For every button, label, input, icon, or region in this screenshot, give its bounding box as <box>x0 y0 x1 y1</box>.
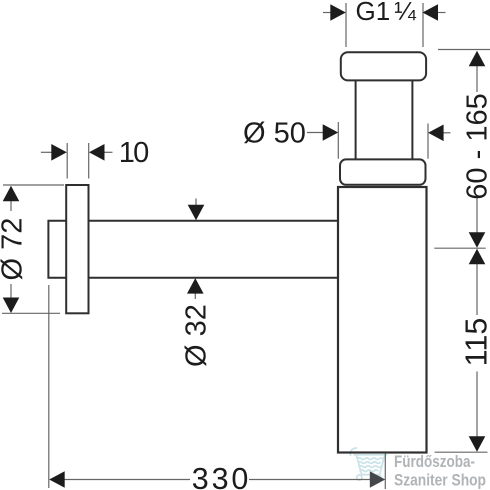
top flange <box>341 52 426 80</box>
dim G right arrow <box>423 4 439 21</box>
dim 32 down arrow <box>188 205 205 221</box>
dim 72 down arrow <box>3 298 20 314</box>
svg-text:Ø 32: Ø 32 <box>180 304 212 367</box>
svg-text:Ø 50: Ø 50 <box>243 118 306 150</box>
svg-text:Ø 72: Ø 72 <box>0 218 28 281</box>
dim 50 extension lines <box>337 122 339 159</box>
dim 330 left extension line <box>48 285 50 488</box>
pipe bottom edge <box>89 277 339 279</box>
svg-text:60 - 165: 60 - 165 <box>462 93 490 199</box>
svg-text:10: 10 <box>119 137 148 169</box>
dim 32 line tails <box>195 199 197 208</box>
top right extension line <box>438 49 490 51</box>
dim 10 right arrow <box>89 144 105 161</box>
dim G left arrow <box>330 4 346 21</box>
svg-text:Szaniter Shop: Szaniter Shop <box>394 471 486 490</box>
dim 72 line tails <box>10 201 12 212</box>
dim G extension lines <box>345 3 347 47</box>
pipe top edge <box>89 220 339 222</box>
dim 60-165 line segments <box>476 66 478 92</box>
body <box>338 187 427 453</box>
dim 60-165 up arrow <box>469 51 486 67</box>
dim 115 line segments <box>476 264 478 316</box>
dim 10 left arrow <box>51 144 67 161</box>
dim G leader tails <box>323 12 332 14</box>
dim 330 line <box>64 479 190 481</box>
watermark text <box>394 452 486 490</box>
svg-text:Fürdőszoba-: Fürdőszoba- <box>394 452 475 471</box>
dim 32 up arrow <box>187 278 204 294</box>
watermark logo shopping basket <box>350 448 386 480</box>
dim 115 down arrow <box>469 436 486 452</box>
bottom right extension line <box>435 451 488 453</box>
dim 50 leader tails <box>307 132 324 134</box>
dim 330 left arrow <box>49 471 64 488</box>
dim 115 up arrow <box>469 249 486 264</box>
middle right extension line <box>434 247 485 249</box>
siphon outline group <box>48 52 426 452</box>
wall flange <box>66 185 88 313</box>
dim 10 leader tails <box>41 151 53 153</box>
dim 330 right arrow <box>370 471 386 488</box>
dim 72 up arrow <box>3 186 20 202</box>
dim 330 right extension line <box>384 454 386 490</box>
svg-text:¼: ¼ <box>394 0 416 26</box>
svg-text:330: 330 <box>192 462 252 490</box>
tube left edge <box>355 80 357 159</box>
dim 50 right arrow <box>428 125 444 142</box>
svg-text:G1: G1 <box>356 0 391 26</box>
svg-text:115: 115 <box>460 318 490 367</box>
tube right edge <box>411 80 413 159</box>
dim 10 extension lines <box>66 143 68 179</box>
collar <box>340 159 426 184</box>
pipe stub left cap <box>48 221 66 278</box>
dim 50 left arrow <box>323 124 339 141</box>
dim 60-165 down arrow <box>469 232 486 248</box>
dim 72 extension lines <box>3 184 64 186</box>
